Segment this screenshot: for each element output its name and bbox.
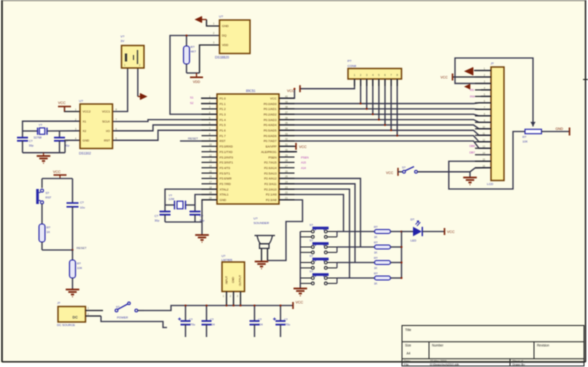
wire P2.1 to key row 1 xyxy=(279,195,344,232)
sensor U3 DS18B20 xyxy=(213,15,250,60)
svg-text:V?: V? xyxy=(121,35,125,39)
svg-text:U?: U? xyxy=(79,99,83,103)
svg-text:104: 104 xyxy=(210,322,215,326)
resistor R7 1K xyxy=(337,256,402,270)
svg-text:R?: R? xyxy=(374,225,378,229)
svg-text:P1.4: P1.4 xyxy=(220,118,227,122)
wire ALE stub xyxy=(279,151,297,153)
svg-text:P0.6/AD6: P0.6/AD6 xyxy=(264,134,277,138)
RTC U5 DS1302 xyxy=(75,99,118,156)
power-port VCC (LED) xyxy=(445,228,455,235)
svg-text:DB7: DB7 xyxy=(470,151,476,155)
svg-text:P1.1: P1.1 xyxy=(220,102,227,106)
power-port VCC above DS1302 xyxy=(58,101,80,112)
svg-text:XTAL1: XTAL1 xyxy=(220,193,229,197)
node RESET xyxy=(42,246,87,251)
title block xyxy=(402,326,584,367)
wire DS1302 RST to MCU P1.6 xyxy=(113,130,217,140)
svg-text:P0.3/AD3: P0.3/AD3 xyxy=(264,118,277,122)
battery V1 3V xyxy=(121,35,145,68)
svg-text:P3.6/WR: P3.6/WR xyxy=(220,177,233,181)
svg-text:LM7805: LM7805 xyxy=(222,258,233,262)
svg-text:1K: 1K xyxy=(374,250,378,254)
svg-text:S2: S2 xyxy=(190,101,194,105)
svg-text:R?: R? xyxy=(47,225,51,229)
svg-text:DC: DC xyxy=(73,316,79,320)
wire main power rail xyxy=(144,306,293,311)
buzzer U2 SOUNDER xyxy=(254,217,276,261)
svg-text:GND: GND xyxy=(220,198,228,202)
ground symbol (keys) xyxy=(294,289,308,296)
capacitor C4 30p (XTAL right) xyxy=(190,205,205,223)
wire battery negative xyxy=(137,68,139,97)
svg-text:S?: S? xyxy=(310,223,314,227)
svg-text:P0.5/AD5: P0.5/AD5 xyxy=(264,129,277,133)
resistor R4 10K xyxy=(70,250,83,290)
svg-text:X2: X2 xyxy=(83,129,87,133)
wire reset branch split xyxy=(42,179,73,200)
svg-text:C?: C? xyxy=(189,317,193,321)
svg-text:10K: 10K xyxy=(523,139,528,143)
svg-text:1K: 1K xyxy=(374,235,378,239)
svg-text:S?: S? xyxy=(46,191,50,195)
capacitor C10 104 xyxy=(250,305,264,338)
svg-text:VCC: VCC xyxy=(287,89,295,93)
svg-text:File:: File: xyxy=(404,363,410,367)
svg-text:A15: A15 xyxy=(301,161,306,165)
ground symbol (buzzer) xyxy=(255,262,269,269)
svg-text:C?: C? xyxy=(258,317,262,321)
power-port VCC (LCD backlight switch) xyxy=(386,168,403,176)
svg-text:P1.5: P1.5 xyxy=(220,123,227,127)
svg-text:DQ: DQ xyxy=(222,34,227,38)
svg-text:P3.7/RD: P3.7/RD xyxy=(220,182,232,186)
capacitor C5 10u electrolytic xyxy=(67,200,86,251)
svg-text:VCC: VCC xyxy=(270,96,277,100)
wire DS18B20 GND pin 1 to arrow port xyxy=(207,20,220,27)
svg-text:P3.5/T1: P3.5/T1 xyxy=(220,171,231,175)
wire LCD pin1 arrow port xyxy=(464,67,491,75)
crystal Y1 12M xyxy=(165,193,195,209)
svg-text:P1.0: P1.0 xyxy=(220,96,227,100)
wire P2.0 to buzzer xyxy=(268,200,303,261)
regulator U4 LM7805 xyxy=(222,254,245,306)
svg-text:D?: D? xyxy=(411,218,415,222)
svg-text:SOUNDER: SOUNDER xyxy=(254,221,270,225)
svg-text:PSEN: PSEN xyxy=(268,155,276,159)
svg-text:1K: 1K xyxy=(374,281,378,285)
ground symbol (LCD) xyxy=(463,172,477,185)
switch S2 key1 xyxy=(300,223,337,238)
power-port GND (pot) xyxy=(556,127,570,135)
svg-text:D:\Design\sch2010.ddb: D:\Design\sch2010.ddb xyxy=(430,363,460,367)
svg-text:PSEN: PSEN xyxy=(301,155,309,159)
wire to LCD pin16 xyxy=(470,168,491,172)
svg-text:INPUT: INPUT xyxy=(225,276,229,284)
svg-text:P2.3/A11: P2.3/A11 xyxy=(264,182,276,186)
wire LCD pin3 VO to potentiometer loop xyxy=(455,58,533,127)
LED D1 xyxy=(402,218,445,243)
wire key rows join column xyxy=(401,231,403,280)
power-port VCC (LCD pin2) xyxy=(441,73,492,80)
svg-text:R?: R? xyxy=(191,45,195,49)
svg-text:R?: R? xyxy=(374,256,378,260)
switch S6 POWER xyxy=(115,302,144,320)
wire DS1302 SCLK to MCU P1.4 xyxy=(113,120,217,122)
svg-text:X1: X1 xyxy=(83,119,87,123)
wire DS1302 I/O to MCU P1.5 xyxy=(113,125,217,131)
svg-text:GND: GND xyxy=(83,139,91,143)
svg-text:C?: C? xyxy=(210,317,214,321)
svg-text:DS1302: DS1302 xyxy=(79,152,91,156)
svg-text:P0.0/AD0: P0.0/AD0 xyxy=(264,102,277,106)
svg-text:32768: 32768 xyxy=(34,136,42,140)
svg-text:S?: S? xyxy=(402,166,406,170)
svg-text:P0.1/AD1: P0.1/AD1 xyxy=(264,107,277,111)
capacitor C3 30p (XTAL left) xyxy=(155,205,171,223)
crystal Y2 32768 xyxy=(23,123,81,139)
svg-text:P1.2: P1.2 xyxy=(220,107,227,111)
svg-text:1K: 1K xyxy=(374,266,378,270)
switch S3 key2 xyxy=(300,238,337,253)
svg-text:470u: 470u xyxy=(284,322,291,326)
svg-text:Title: Title xyxy=(405,328,411,332)
svg-text:P3.1/TXD: P3.1/TXD xyxy=(220,150,234,154)
MCU U1 89C51 xyxy=(202,89,295,204)
svg-text:P3.0/RXD: P3.0/RXD xyxy=(220,145,234,149)
svg-text:DB6: DB6 xyxy=(470,144,476,148)
svg-text:470u: 470u xyxy=(189,322,196,326)
svg-text:S?: S? xyxy=(116,305,120,309)
svg-text:C?: C? xyxy=(29,139,33,143)
svg-text:89C51: 89C51 xyxy=(246,89,256,93)
svg-text:P3.2/INT0: P3.2/INT0 xyxy=(220,155,234,159)
wire P2.3 to key row 3 xyxy=(279,184,355,263)
switch S1 RST push-button xyxy=(36,189,51,224)
svg-text:1K: 1K xyxy=(47,230,51,234)
svg-text:R?: R? xyxy=(523,135,527,139)
svg-text:VCC: VCC xyxy=(441,76,449,80)
wire crystal ground rail xyxy=(23,140,81,152)
svg-text:VCC: VCC xyxy=(58,101,66,105)
wire P0 data bus to LCD xyxy=(279,103,491,148)
resistor R5 1K xyxy=(337,225,402,239)
svg-text:R?: R? xyxy=(374,272,378,276)
svg-text:P2.0/A8: P2.0/A8 xyxy=(266,198,277,202)
svg-text:R?: R? xyxy=(374,241,378,245)
capacitor C11 470u xyxy=(273,305,291,338)
power-port arrow at LCD pin3 zone xyxy=(464,84,470,89)
svg-text:C?: C? xyxy=(155,214,159,218)
svg-text:RESET: RESET xyxy=(77,246,87,250)
switch S7 backlight xyxy=(402,166,470,174)
wire battery positive to DS1302 VCC1 xyxy=(113,68,128,112)
svg-text:Y?: Y? xyxy=(39,123,43,127)
svg-text:SCLK: SCLK xyxy=(102,119,110,123)
svg-text:P0.2/AD2: P0.2/AD2 xyxy=(264,112,277,116)
svg-text:P0.4/AD4: P0.4/AD4 xyxy=(264,123,277,127)
capacitor C9 104 xyxy=(202,305,216,338)
svg-text:S?: S? xyxy=(310,269,314,273)
svg-text:P2.5/A13: P2.5/A13 xyxy=(264,171,277,175)
power-port VCC at EA/VPP xyxy=(279,143,307,150)
wire DS1302 X1 net xyxy=(23,121,81,137)
svg-text:Drawn By:: Drawn By: xyxy=(513,363,526,367)
svg-text:12M: 12M xyxy=(169,197,175,201)
svg-text:30p: 30p xyxy=(29,143,34,147)
capacitor C7 30p (right) xyxy=(54,131,70,153)
connector J1 DC jack xyxy=(57,301,103,327)
connector J2 LCD xyxy=(475,62,504,186)
power-port VCC (rail) xyxy=(293,300,303,309)
svg-text:P2.1/A9: P2.1/A9 xyxy=(266,193,277,197)
svg-text:R?: R? xyxy=(77,261,81,265)
svg-text:VCC: VCC xyxy=(53,170,61,174)
net labels at P1.0/P1.1 xyxy=(190,96,217,105)
svg-text:A14: A14 xyxy=(301,166,306,170)
wire XTAL2 net xyxy=(165,189,217,205)
svg-text:VCC: VCC xyxy=(386,171,394,175)
resistor R6 1K xyxy=(337,241,402,255)
wire P2.4 to key row 2 xyxy=(279,178,361,247)
svg-text:GND: GND xyxy=(231,277,235,283)
svg-text:P0.7/AD7: P0.7/AD7 xyxy=(264,139,277,143)
svg-text:OUTPUT: OUTPUT xyxy=(238,275,242,286)
svg-text:RST: RST xyxy=(104,139,110,143)
svg-text:CON8: CON8 xyxy=(348,64,357,68)
net labels PSEN/P2.7/P2.6 xyxy=(301,155,309,170)
svg-text:DC SOURCE: DC SOURCE xyxy=(57,323,75,327)
svg-text:U?: U? xyxy=(219,15,223,19)
wire MCU GND pin 20 to ground xyxy=(165,200,217,235)
svg-text:Number: Number xyxy=(432,344,444,348)
svg-text:10K: 10K xyxy=(77,266,82,270)
svg-text:VCC1: VCC1 xyxy=(102,110,110,114)
svg-text:4K7: 4K7 xyxy=(191,50,197,54)
svg-text:VDD: VDD xyxy=(222,43,229,47)
svg-text:C?: C? xyxy=(80,200,84,204)
svg-text:RST: RST xyxy=(220,139,226,143)
svg-text:DS18B20: DS18B20 xyxy=(215,55,229,59)
ground symbol (DS1302 crystal) xyxy=(37,153,51,164)
svg-text:U?: U? xyxy=(254,217,258,221)
svg-text:Size: Size xyxy=(405,344,411,348)
ground symbol (MCU crystal) xyxy=(195,235,209,242)
svg-text:GND: GND xyxy=(222,24,230,28)
svg-text:LED: LED xyxy=(411,239,418,243)
svg-text:ALE/PROG: ALE/PROG xyxy=(261,150,277,154)
wire XTAL1 net xyxy=(195,195,217,206)
svg-text:C?: C? xyxy=(284,317,288,321)
svg-text:P1.7: P1.7 xyxy=(220,134,227,138)
wire CON8 pin1 / MCU VCC net xyxy=(279,79,355,98)
svg-text:10u: 10u xyxy=(80,205,85,209)
svg-text:LCD: LCD xyxy=(487,182,494,186)
svg-text:J?: J? xyxy=(57,301,61,305)
svg-text:VDD: VDD xyxy=(193,80,201,84)
svg-text:VCC: VCC xyxy=(299,145,307,149)
svg-text:104: 104 xyxy=(258,322,263,326)
ground symbol (reset) xyxy=(66,290,80,297)
resistor R8 1K xyxy=(337,272,402,286)
connector P1 CON8 xyxy=(348,59,402,86)
svg-text:VCC2: VCC2 xyxy=(83,110,91,114)
svg-text:VCC: VCC xyxy=(296,300,304,304)
capacitor C8 470u xyxy=(178,305,196,338)
svg-text:P2.4/A12: P2.4/A12 xyxy=(264,177,277,181)
svg-text:P1.3: P1.3 xyxy=(220,112,227,116)
svg-text:P1.6: P1.6 xyxy=(220,129,227,133)
capacitor C6 30p (left) xyxy=(17,138,34,153)
switch S5 key4 xyxy=(300,269,337,284)
svg-text:P2.7/A15: P2.7/A15 xyxy=(264,161,277,165)
power-port arrow GND (DS18B20) xyxy=(195,16,207,22)
svg-text:30p: 30p xyxy=(155,219,160,223)
svg-text:S1: S1 xyxy=(190,96,194,100)
wire MCU RST with RESET net label xyxy=(180,136,217,141)
svg-text:J?: J? xyxy=(491,62,495,66)
svg-text:RESET: RESET xyxy=(188,136,198,140)
wire LCD pin15 to pot left lead xyxy=(449,132,525,190)
svg-text:A4: A4 xyxy=(407,351,411,355)
svg-text:P3.3/INT1: P3.3/INT1 xyxy=(220,161,234,165)
svg-text:Revision: Revision xyxy=(537,344,549,348)
wire DS18B20 DQ to MCU P1.3 xyxy=(170,36,220,115)
svg-text:S?: S? xyxy=(310,254,314,258)
svg-text:P2.6/A14: P2.6/A14 xyxy=(264,166,277,170)
svg-text:RST: RST xyxy=(46,195,52,199)
svg-text:POWER: POWER xyxy=(117,316,128,320)
svg-text:P2.2/A10: P2.2/A10 xyxy=(264,187,277,191)
net labels LCD pins 4,5 xyxy=(470,88,491,98)
ground power-port arrow at battery GND1 xyxy=(138,93,148,99)
net labels LCD pins 13,14 xyxy=(470,144,476,154)
switch S4 key3 xyxy=(300,254,337,269)
svg-text:RW: RW xyxy=(470,95,475,99)
svg-text:EA/VPP: EA/VPP xyxy=(266,145,277,149)
svg-text:GND: GND xyxy=(556,127,564,131)
power-port VCC (CON8/MCU) xyxy=(287,85,300,93)
svg-text:RS: RS xyxy=(470,88,474,92)
wire DS18B20 VDD pin 3 xyxy=(200,45,220,73)
svg-text:P3.4/T0: P3.4/T0 xyxy=(220,166,231,170)
wire keys common to ground xyxy=(299,232,301,289)
svg-text:S?: S? xyxy=(310,238,314,242)
power-port VDD bar xyxy=(190,73,203,84)
potentiometer R10 10K xyxy=(523,122,570,143)
power-port VCC (reset circuit) xyxy=(53,170,67,178)
resistor R2 4K7 pull-up xyxy=(184,35,200,74)
wire CON8 pins 2-8 to P0 bus xyxy=(360,79,399,137)
svg-text:I/O: I/O xyxy=(106,129,111,133)
resistor R3 1K xyxy=(39,224,51,250)
svg-text:P?: P? xyxy=(348,59,352,63)
wire DC jack pin2 return xyxy=(101,316,167,328)
wire P2.2 to key row 4 xyxy=(279,189,350,278)
svg-text:XTAL2: XTAL2 xyxy=(220,187,229,191)
svg-text:VCC: VCC xyxy=(447,230,455,234)
